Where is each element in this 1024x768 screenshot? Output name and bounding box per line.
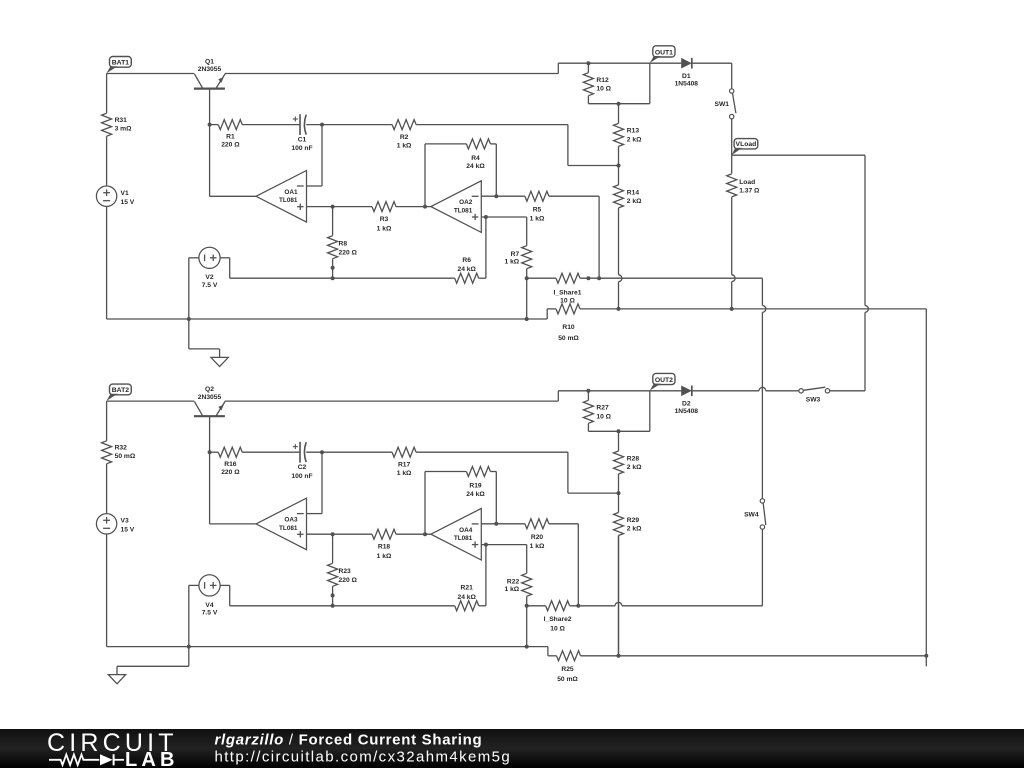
resistor R1 <box>210 124 219 126</box>
resistor R28 <box>618 431 620 451</box>
svg-text:Q2: Q2 <box>205 386 214 393</box>
svg-text:1 kΩ: 1 kΩ <box>377 553 392 560</box>
wire R10 line vertical to R25 line <box>925 309 927 667</box>
svg-text:2N3055: 2N3055 <box>198 394 222 401</box>
svg-text:Load: Load <box>739 179 755 186</box>
svg-text:rlgarzillo / Forced Current Sh: rlgarzillo / Forced Current Sharing <box>215 732 483 749</box>
svg-text:15 V: 15 V <box>121 526 135 533</box>
junction plus node <box>331 205 335 209</box>
op-amp OA1 <box>256 171 307 223</box>
svg-text:R16: R16 <box>224 461 237 468</box>
svg-text:2N3055: 2N3055 <box>198 66 222 73</box>
resistor R7 <box>526 217 528 246</box>
resistor R13 <box>618 104 620 124</box>
svg-text:R14: R14 <box>627 189 640 196</box>
wire VLoad line right <box>732 154 865 156</box>
resistor R29 <box>618 493 620 512</box>
capacitor C2 <box>299 442 301 463</box>
svg-text:220 Ω: 220 Ω <box>339 577 358 584</box>
svg-text:24 kΩ: 24 kΩ <box>458 266 477 273</box>
svg-text:50 mΩ: 50 mΩ <box>557 676 578 683</box>
svg-text:1 kΩ: 1 kΩ <box>397 470 412 477</box>
wire top rail left <box>107 73 195 75</box>
diode D2 <box>681 386 692 397</box>
wire OA2 inverting input <box>481 523 525 525</box>
voltage source V2 <box>199 247 220 268</box>
resistor R21 <box>455 601 479 611</box>
junction base-R-C node <box>208 123 212 127</box>
junction feedback tap <box>423 532 427 536</box>
svg-text:OA4: OA4 <box>459 527 473 534</box>
svg-text:R10: R10 <box>562 324 575 331</box>
wire R2 to divider <box>416 451 568 453</box>
wire to R6 <box>333 605 455 607</box>
svg-text:R19: R19 <box>469 482 482 489</box>
svg-text:OA1: OA1 <box>284 189 298 196</box>
svg-text:TL081: TL081 <box>279 197 298 204</box>
resistor R27 <box>586 389 590 393</box>
wire noninverting input <box>307 533 373 535</box>
svg-text:R25: R25 <box>561 666 574 673</box>
svg-text:1 kΩ: 1 kΩ <box>397 142 412 149</box>
svg-text:1 kΩ: 1 kΩ <box>530 543 545 550</box>
junction feedback tap <box>423 205 427 209</box>
wire SW3 to VLoad vertical <box>830 390 865 392</box>
junction C output node <box>320 450 324 454</box>
svg-text:24 kΩ: 24 kΩ <box>466 491 485 498</box>
svg-text:R32: R32 <box>115 445 128 452</box>
wire rail step up to OUT level <box>557 391 559 401</box>
svg-text:50 mΩ: 50 mΩ <box>558 335 579 342</box>
resistor R12 <box>586 61 590 65</box>
CircuitLab logo <box>47 729 179 768</box>
wire D2 to SW3 <box>692 390 759 392</box>
svg-text:OUT2: OUT2 <box>655 377 673 384</box>
svg-text:220 Ω: 220 Ω <box>221 469 240 476</box>
svg-text:R6: R6 <box>462 257 471 264</box>
wire OA2 noninverting input <box>481 544 526 546</box>
svg-text:OUT1: OUT1 <box>655 49 673 56</box>
wire R3 to OA2 apex <box>396 206 431 208</box>
resistor R2 <box>392 120 416 130</box>
wire V2 right lead <box>220 584 230 586</box>
transistor Q1 <box>194 87 225 89</box>
junction inv node <box>494 522 498 526</box>
wire V2 right lead <box>220 257 230 259</box>
resistor R14 <box>618 166 620 185</box>
wire share bus vertical to SW4 <box>761 278 763 305</box>
resistor R4 feedback loop <box>424 144 426 207</box>
svg-text:R13: R13 <box>627 128 640 135</box>
svg-text:10 Ω: 10 Ω <box>550 626 565 633</box>
svg-text:V4: V4 <box>205 602 213 609</box>
svg-text:2 kΩ: 2 kΩ <box>627 136 642 143</box>
node BAT2 <box>110 384 132 395</box>
resistor I_Share1 <box>527 277 556 279</box>
junction inv node <box>494 194 498 198</box>
switch SW3 <box>799 389 803 393</box>
svg-text:1N5408: 1N5408 <box>675 408 699 415</box>
node BAT1 <box>110 57 132 68</box>
resistor R10 <box>546 309 548 319</box>
svg-text:7.5 V: 7.5 V <box>202 282 218 289</box>
wire rail step up to OUT level <box>557 63 559 73</box>
junction V2 ground rail <box>187 645 191 649</box>
svg-text:100 nF: 100 nF <box>291 145 312 152</box>
svg-text:R4: R4 <box>471 155 480 162</box>
wire base lead / op-amp output <box>209 89 211 196</box>
svg-text:220 Ω: 220 Ω <box>221 142 240 149</box>
svg-text:http://circuitlab.com/cx32ahm4: http://circuitlab.com/cx32ahm4kem5g <box>215 749 512 766</box>
wire noninverting input <box>307 206 373 208</box>
svg-text:15 V: 15 V <box>121 199 135 206</box>
junction plus node <box>331 532 335 536</box>
svg-text:R1: R1 <box>226 133 235 140</box>
resistor R3 <box>372 202 396 212</box>
wire bottom rail <box>107 646 548 648</box>
svg-text:2 kΩ: 2 kΩ <box>627 198 642 205</box>
wire R20 to share line <box>549 523 578 525</box>
svg-text:BAT2: BAT2 <box>112 387 129 394</box>
svg-text:10 Ω: 10 Ω <box>596 86 611 93</box>
svg-text:2 kΩ: 2 kΩ <box>627 526 642 533</box>
op-amp OA2 <box>431 181 481 233</box>
svg-text:R7: R7 <box>511 251 520 258</box>
wire top rail right <box>225 73 559 75</box>
voltage source V1 <box>96 186 116 206</box>
junction plus input node <box>484 215 488 219</box>
wire D1 to SW1 <box>692 62 732 64</box>
voltage source V3 <box>96 514 116 534</box>
svg-text:100 nF: 100 nF <box>291 473 312 480</box>
transistor Q2 <box>194 415 225 417</box>
svg-text:C2: C2 <box>298 464 307 471</box>
resistor R19 feedback loop <box>424 472 426 535</box>
resistor I_Share2 <box>527 605 546 607</box>
svg-text:V2: V2 <box>205 274 213 281</box>
svg-text:220 Ω: 220 Ω <box>339 250 358 257</box>
svg-text:3 mΩ: 3 mΩ <box>115 125 133 132</box>
resistor R16 <box>210 451 219 453</box>
svg-text:R17: R17 <box>398 462 411 469</box>
wire top rail left (bottom half) <box>107 400 195 402</box>
wire SW4 to I_Share2 line <box>761 529 763 606</box>
svg-text:10 Ω: 10 Ω <box>596 413 611 420</box>
voltage source V4 <box>199 575 220 596</box>
wire V2 left lead <box>189 257 199 259</box>
svg-text:SW4: SW4 <box>744 511 759 518</box>
wire C to junction <box>306 124 392 126</box>
junction V2 ground rail <box>187 317 191 321</box>
svg-text:D1: D1 <box>682 73 691 80</box>
svg-text:SW3: SW3 <box>806 397 821 404</box>
capacitor C1 <box>299 114 301 135</box>
svg-text:1 kΩ: 1 kΩ <box>377 225 392 232</box>
op-amp OA3 <box>256 498 307 550</box>
svg-text:50 mΩ: 50 mΩ <box>115 453 136 460</box>
svg-text:TL081: TL081 <box>279 525 298 532</box>
wire base lead / op-amp output <box>209 417 211 524</box>
node VLoad <box>734 139 758 149</box>
wire inverting input feedback <box>321 125 323 186</box>
wire R5 to share line <box>549 195 599 197</box>
svg-text:R2: R2 <box>400 134 409 141</box>
svg-text:D2: D2 <box>682 401 691 408</box>
wire R to C <box>242 451 300 453</box>
svg-text:1 kΩ: 1 kΩ <box>530 216 545 223</box>
wire SW1 to VLoad <box>731 119 733 155</box>
svg-text:OA3: OA3 <box>284 517 298 524</box>
svg-text:7.5 V: 7.5 V <box>202 610 218 617</box>
wire OA2 inverting input <box>481 195 525 197</box>
resistor R6 <box>455 273 479 283</box>
op-amp OA4 <box>431 508 481 560</box>
switch SW4 <box>760 499 764 503</box>
svg-text:V3: V3 <box>121 518 129 525</box>
diode D1 <box>681 58 692 69</box>
resistor R31 <box>106 74 108 114</box>
svg-text:R20: R20 <box>531 534 544 541</box>
wire VLoad vertical to SW3 <box>864 155 866 305</box>
svg-text:24 kΩ: 24 kΩ <box>458 594 477 601</box>
svg-text:R29: R29 <box>627 517 640 524</box>
svg-text:R5: R5 <box>533 206 542 213</box>
junction base-R-C node <box>208 450 212 454</box>
resistor R23 <box>332 534 334 563</box>
svg-text:V1: V1 <box>121 190 129 197</box>
junction C output node <box>320 123 324 127</box>
svg-text:C1: C1 <box>298 137 307 144</box>
svg-text:I_Share1: I_Share1 <box>554 289 582 296</box>
resistor R17 <box>392 447 416 457</box>
svg-text:I_Share2: I_Share2 <box>544 616 572 623</box>
ground symbol bottom half <box>188 647 190 667</box>
svg-text:24 kΩ: 24 kΩ <box>466 163 485 170</box>
node OUT1 <box>653 46 675 57</box>
svg-text:R31: R31 <box>115 117 128 124</box>
resistor R22 <box>526 545 528 574</box>
resistor R20 <box>525 519 549 529</box>
svg-text:OA2: OA2 <box>459 199 473 206</box>
svg-text:R27: R27 <box>596 405 609 412</box>
wire R to C <box>242 124 300 126</box>
resistor R5 <box>525 191 549 201</box>
svg-text:R18: R18 <box>378 544 391 551</box>
wire inverting input feedback <box>321 452 323 513</box>
junction plus input node <box>484 543 488 547</box>
wire R3 to OA2 apex <box>396 533 431 535</box>
svg-text:1.37 Ω: 1.37 Ω <box>739 188 760 195</box>
wire C to junction <box>306 451 392 453</box>
node OUT2 <box>653 373 675 384</box>
svg-text:LAB: LAB <box>125 749 179 768</box>
svg-text:R23: R23 <box>339 568 352 575</box>
svg-text:VLoad: VLoad <box>736 141 757 148</box>
ground symbol top half <box>188 319 190 349</box>
wire top rail right <box>225 400 559 402</box>
svg-text:R12: R12 <box>596 77 609 84</box>
svg-text:R8: R8 <box>339 240 348 247</box>
svg-text:R22: R22 <box>507 579 520 586</box>
resistor Load <box>731 155 733 173</box>
svg-text:R3: R3 <box>380 216 389 223</box>
svg-text:TL081: TL081 <box>454 535 473 542</box>
resistor R32 <box>106 401 108 441</box>
svg-text:R28: R28 <box>627 455 640 462</box>
wire bottom rail <box>107 318 548 320</box>
svg-text:2 kΩ: 2 kΩ <box>627 464 642 471</box>
svg-text:R21: R21 <box>461 585 474 592</box>
wire V2 left lead <box>189 584 199 586</box>
wire R2 to divider <box>416 124 568 126</box>
svg-text:Q1: Q1 <box>205 59 214 66</box>
svg-text:TL081: TL081 <box>454 208 473 215</box>
svg-text:BAT1: BAT1 <box>112 60 129 67</box>
wire OA2 noninverting input <box>481 216 526 218</box>
resistor R18 <box>372 529 396 539</box>
svg-text:1N5408: 1N5408 <box>675 80 699 87</box>
svg-text:SW1: SW1 <box>715 101 730 108</box>
resistor R25 <box>547 647 549 656</box>
resistor R8 <box>332 207 334 236</box>
wire to R6 <box>333 277 455 279</box>
svg-text:1 kΩ: 1 kΩ <box>505 258 520 265</box>
svg-text:1 kΩ: 1 kΩ <box>505 586 520 593</box>
switch SW1 <box>730 89 734 93</box>
